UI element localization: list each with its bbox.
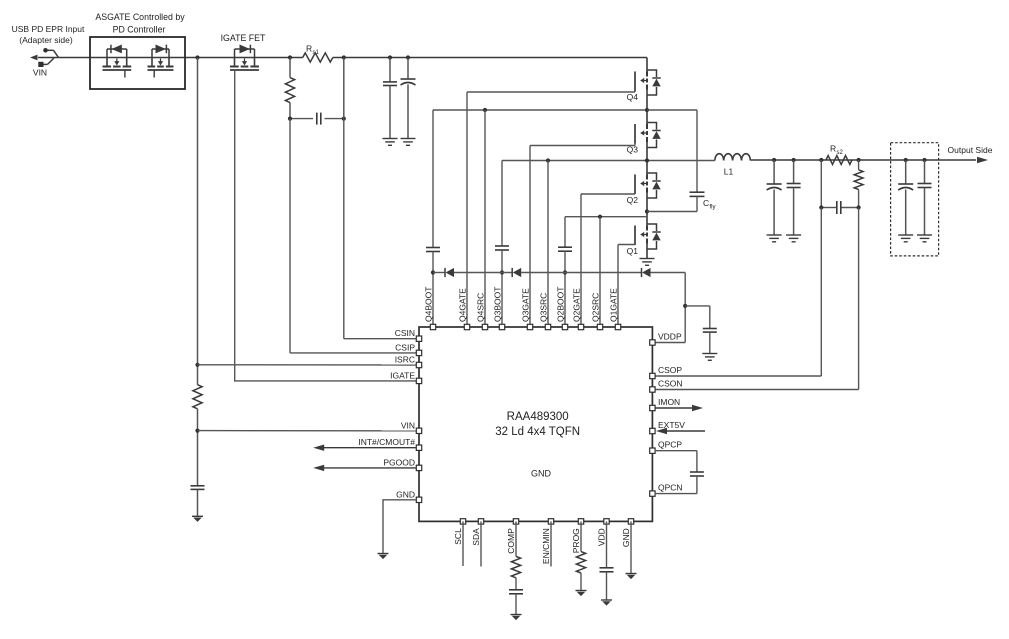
diode boot D2 (512, 268, 521, 277)
resistor Rs1 (303, 53, 333, 62)
svg-text:Q2SRC: Q2SRC (591, 293, 601, 322)
wire CSIN leg (344, 58, 416, 339)
pin CSIP (395, 342, 422, 355)
wire IGATE gate to pin (235, 70, 416, 381)
wire from rail to R divider (197, 58, 199, 385)
svg-text:SDA: SDA (471, 528, 481, 546)
svg-text:QPCP: QPCP (658, 440, 682, 450)
svg-text:Q2BOOT: Q2BOOT (556, 287, 566, 322)
svg-text:ASGATE Controlled by: ASGATE Controlled by (95, 12, 185, 22)
input arrow VIN (30, 55, 38, 61)
svg-text:GND: GND (621, 528, 631, 547)
wire INT# arrow (313, 445, 416, 451)
svg-text:Q4GATE: Q4GATE (458, 288, 468, 322)
transistor Q4 (467, 58, 661, 111)
ground input cap 1 (383, 139, 398, 146)
transistor IGATE FET (230, 45, 259, 71)
label USB PD EPR Input (12, 24, 85, 45)
wire COMP (515, 521, 517, 556)
label Rs2 (830, 144, 844, 157)
wire Rs2 filter (858, 160, 860, 208)
pin VDD bottom (597, 519, 610, 546)
node Q4BOOT chain (431, 270, 435, 274)
wire PROG (580, 521, 582, 551)
svg-text:Q3: Q3 (627, 145, 639, 155)
pin QPCP (650, 440, 683, 454)
capacitor Rs1 filter (317, 113, 321, 125)
svg-text:(Adapter side): (Adapter side) (19, 35, 73, 45)
svg-text:GND: GND (396, 489, 415, 499)
wire VDDP riser (655, 273, 685, 343)
resistor Rs2 (826, 156, 852, 165)
node after ASGATE box (195, 55, 199, 59)
node Q2SRC (598, 215, 602, 219)
pin Q3BOOT (493, 287, 505, 330)
wire Q2GATE (580, 194, 582, 324)
node Q2BOOT chain (563, 270, 567, 274)
pin COMP bottom (506, 519, 519, 554)
wire Q4SRC to pin (484, 110, 486, 324)
wire output line (750, 159, 976, 161)
ground box cap1 (898, 235, 913, 242)
node phase (645, 158, 649, 162)
wire Q2SRC to pin (599, 217, 601, 324)
pin Q2BOOT (556, 287, 568, 330)
pin SDA bottom (471, 519, 483, 546)
node Rs2 right (857, 158, 861, 162)
node VDDP (683, 304, 687, 308)
pin Q2SRC (591, 293, 603, 330)
svg-text:VDD: VDD (597, 528, 607, 546)
node input cap 2 (406, 55, 410, 59)
transistor Q3 (530, 110, 661, 161)
ground out cap1 (767, 235, 782, 242)
resistor PROG (576, 552, 585, 573)
output arrow (977, 157, 988, 163)
node ISRC tap (195, 363, 199, 367)
inductor L1 (715, 154, 751, 161)
resistor Rs2 filter (854, 170, 863, 190)
ground input cap 2 (401, 139, 416, 146)
svg-text:s1: s1 (313, 50, 320, 56)
wire PROG gnd (580, 573, 582, 591)
wire phase net (502, 161, 715, 247)
pin Q3SRC (539, 293, 551, 330)
transistor Q2 (581, 161, 661, 212)
node filter left (288, 117, 292, 121)
capacitor box 2 (918, 160, 932, 235)
pin VDDP (650, 332, 682, 346)
label GND center (531, 469, 552, 479)
pin Q4GATE (458, 288, 470, 330)
svg-text:IGATE: IGATE (390, 370, 415, 380)
ground VDD (601, 600, 612, 606)
pin EN/CMIN bottom (541, 519, 554, 564)
op-amp U1 RAA489300 body (419, 327, 652, 521)
svg-text:32 Ld 4x4 TQFN: 32 Ld 4x4 TQFN (495, 426, 580, 438)
label L1 (724, 167, 734, 177)
pin Q3GATE (521, 288, 533, 330)
node Rs1 left (288, 55, 292, 59)
svg-text:CSON: CSON (658, 379, 683, 389)
wire GND bottom (630, 521, 632, 573)
capacitor output 2 (787, 160, 801, 235)
capacitor input 1 (383, 58, 397, 139)
pin PGOOD (383, 457, 421, 470)
pin GND bottom (621, 519, 634, 547)
svg-text:IGATE FET: IGATE FET (221, 33, 266, 43)
node Q3BOOT chain (500, 270, 504, 274)
svg-text:VIN: VIN (401, 420, 415, 430)
wire PGOOD arrow (313, 465, 416, 471)
ground PROG (576, 591, 587, 597)
node out cap1 (772, 158, 776, 162)
wire Q1GATE (617, 245, 619, 325)
ground GND bottom (626, 574, 637, 580)
svg-text:Q1GATE: Q1GATE (609, 288, 619, 322)
wire QPCN (655, 476, 697, 494)
diode boot D1 (445, 268, 454, 277)
wire GND left pin (383, 500, 416, 554)
pin INT#/CMOUT# (358, 437, 421, 450)
label INT#/CMOUT# (0, 0, 1, 1)
svg-text:R: R (306, 44, 312, 54)
ground box cap2 (917, 235, 932, 242)
wire CSON (655, 208, 859, 390)
svg-text:USB PD EPR Input: USB PD EPR Input (12, 24, 85, 34)
pin Q2GATE (572, 288, 584, 330)
svg-text:INT#/CMOUT#: INT#/CMOUT# (358, 437, 415, 447)
capacitor Q3 boot (495, 246, 509, 250)
wire Rs2 cap node (821, 160, 858, 208)
svg-text:Q4: Q4 (627, 92, 639, 102)
node out cap2 (792, 158, 796, 162)
wire VDDP cap branch (685, 306, 710, 329)
wire SDA (480, 521, 482, 566)
node box cap2 (922, 158, 926, 162)
wire Q4GATE (466, 92, 468, 324)
svg-text:SCL: SCL (453, 528, 463, 545)
svg-text:R: R (830, 144, 836, 154)
capacitor VDD (600, 568, 614, 572)
wire EN/CMIN (550, 521, 552, 566)
node box cap1 (904, 158, 908, 162)
label Rs1 (306, 44, 320, 57)
wire Cfly bottom (647, 196, 697, 211)
svg-text:CSOP: CSOP (658, 365, 682, 375)
pin CSON (650, 379, 683, 393)
connector J1 (38, 48, 58, 67)
svg-text:COMP: COMP (506, 528, 516, 554)
svg-text:RAA489300: RAA489300 (507, 411, 569, 423)
transistor ASGATE FET B (148, 45, 174, 78)
svg-text:Q4SRC: Q4SRC (476, 293, 486, 322)
ground under Q1 (640, 259, 655, 266)
pin EXT5V (650, 420, 686, 434)
wire CSIP leg (290, 119, 416, 353)
svg-text:CSIP: CSIP (395, 342, 415, 352)
wire Q2 source net (565, 217, 647, 248)
label RAA489300 (495, 411, 580, 438)
pin PROG bottom (571, 519, 584, 554)
wire Q3BOOT to pin (501, 250, 503, 324)
ground COMP (511, 615, 522, 621)
svg-text:Output Side: Output Side (948, 145, 993, 155)
resistor Rs1 filter (285, 78, 294, 103)
ASGATE box (90, 37, 185, 89)
transistor ASGATE FET A (103, 45, 132, 78)
node Rs1 right (342, 55, 346, 59)
ground under VIN divider (192, 516, 203, 522)
svg-text:Q3SRC: Q3SRC (539, 293, 549, 322)
svg-text:VIN: VIN (33, 68, 47, 78)
svg-text:Q2GATE: Q2GATE (572, 288, 582, 322)
wire VDDP cap to gnd (709, 332, 711, 353)
svg-text:GND: GND (531, 469, 552, 479)
battery box (891, 143, 939, 256)
capacitor Q2 boot (558, 247, 572, 251)
ground VDDP cap (702, 354, 717, 361)
pin IMON (650, 397, 681, 411)
capacitor VDDP (703, 329, 717, 333)
wire COMP rc (515, 578, 517, 590)
pin ISRC (395, 355, 422, 368)
wire COMP cap gnd (515, 594, 517, 615)
wire Q4BOOT to pin (432, 252, 434, 325)
pin GND (396, 489, 422, 502)
svg-text:EN/CMIN: EN/CMIN (541, 528, 551, 564)
svg-text:s2: s2 (837, 150, 844, 156)
wire VDD gnd (606, 572, 608, 600)
svg-text:CSIN: CSIN (395, 328, 415, 338)
node filter right (342, 117, 346, 121)
capacitor output 1 polarized (767, 160, 782, 235)
pin QPCN (650, 483, 683, 497)
wire Q3GATE (529, 146, 531, 325)
wire SCL (462, 521, 464, 566)
node filter cap right (857, 205, 861, 209)
svg-text:Q1: Q1 (627, 246, 639, 256)
ground out cap2 (786, 235, 801, 242)
node Q4 source (645, 108, 649, 112)
resistor divider lower (193, 385, 202, 409)
pin Q4BOOT (424, 287, 436, 330)
svg-text:Q3BOOT: Q3BOOT (493, 287, 503, 322)
diode boot D3 (642, 268, 651, 277)
svg-text:VDDP: VDDP (658, 332, 682, 342)
node VIN tap (195, 429, 199, 433)
wire resistor to cap (197, 409, 199, 486)
svg-text:PROG: PROG (571, 528, 581, 553)
capacitor QPC (690, 472, 704, 476)
ground GND left pin (378, 554, 389, 560)
svg-text:QPCN: QPCN (658, 483, 683, 493)
resistor COMP (511, 556, 520, 577)
svg-text:ISRC: ISRC (395, 355, 415, 365)
wire EXT5V arrow (656, 428, 705, 434)
node Rs2 left (819, 158, 823, 162)
capacitor on VIN divider (191, 486, 205, 490)
svg-text:IMON: IMON (658, 397, 680, 407)
svg-text:fly: fly (710, 205, 716, 211)
pin CSOP (650, 365, 683, 379)
svg-text:PD Controller: PD Controller (113, 25, 166, 35)
svg-text:Q3GATE: Q3GATE (521, 288, 531, 322)
label ASGATE Controlled by PD Controller (95, 12, 185, 35)
pin Q1GATE (609, 288, 621, 330)
pin CSIN (395, 328, 422, 341)
svg-text:Q2: Q2 (627, 195, 639, 205)
node input cap 1 (388, 55, 392, 59)
label IGATE FET (221, 33, 266, 43)
pin SCL bottom (453, 519, 465, 545)
pin IGATE (390, 370, 422, 383)
wire VIN to pin (198, 430, 417, 432)
svg-text:EXT5V: EXT5V (658, 420, 685, 430)
wire VIN rail (38, 57, 647, 59)
pin VIN (401, 420, 422, 433)
wire Q4 source net (433, 110, 647, 248)
svg-text:Q4BOOT: Q4BOOT (424, 287, 434, 322)
capacitor Cfly (690, 192, 705, 196)
svg-text:L1: L1 (724, 167, 734, 177)
wire filter node (290, 118, 344, 120)
wire Q2BOOT to pin (564, 251, 566, 324)
node Q3SRC (546, 158, 550, 162)
svg-text:C: C (703, 198, 709, 208)
wire Rs1 left filter leg (289, 58, 291, 119)
transistor Q1 (618, 212, 661, 259)
wire CSOP (655, 208, 821, 377)
capacitor COMP (509, 590, 523, 594)
node filter cap left (819, 205, 823, 209)
wire QPCP (655, 451, 697, 472)
wire cap to ground (197, 489, 199, 516)
label Output Side (948, 145, 993, 155)
capacitor Rs2 filter (837, 201, 841, 214)
label Cfly (703, 198, 716, 211)
wire VDD (606, 521, 608, 567)
label VIN (33, 68, 47, 78)
wire IMON arrow (655, 405, 703, 411)
wire ISRC (198, 364, 417, 366)
wire boot chain (433, 272, 685, 274)
capacitor Q4 boot (426, 248, 440, 252)
wire Cfly top (647, 110, 697, 192)
node Q2 source (645, 209, 649, 213)
svg-text:PGOOD: PGOOD (383, 457, 415, 467)
capacitor input 2 polarized (401, 58, 416, 139)
node Q4SRC (483, 108, 487, 112)
capacitor box 1 polarized (898, 160, 913, 235)
wire Q3SRC to pin (547, 161, 549, 325)
pin Q4SRC (476, 293, 488, 330)
